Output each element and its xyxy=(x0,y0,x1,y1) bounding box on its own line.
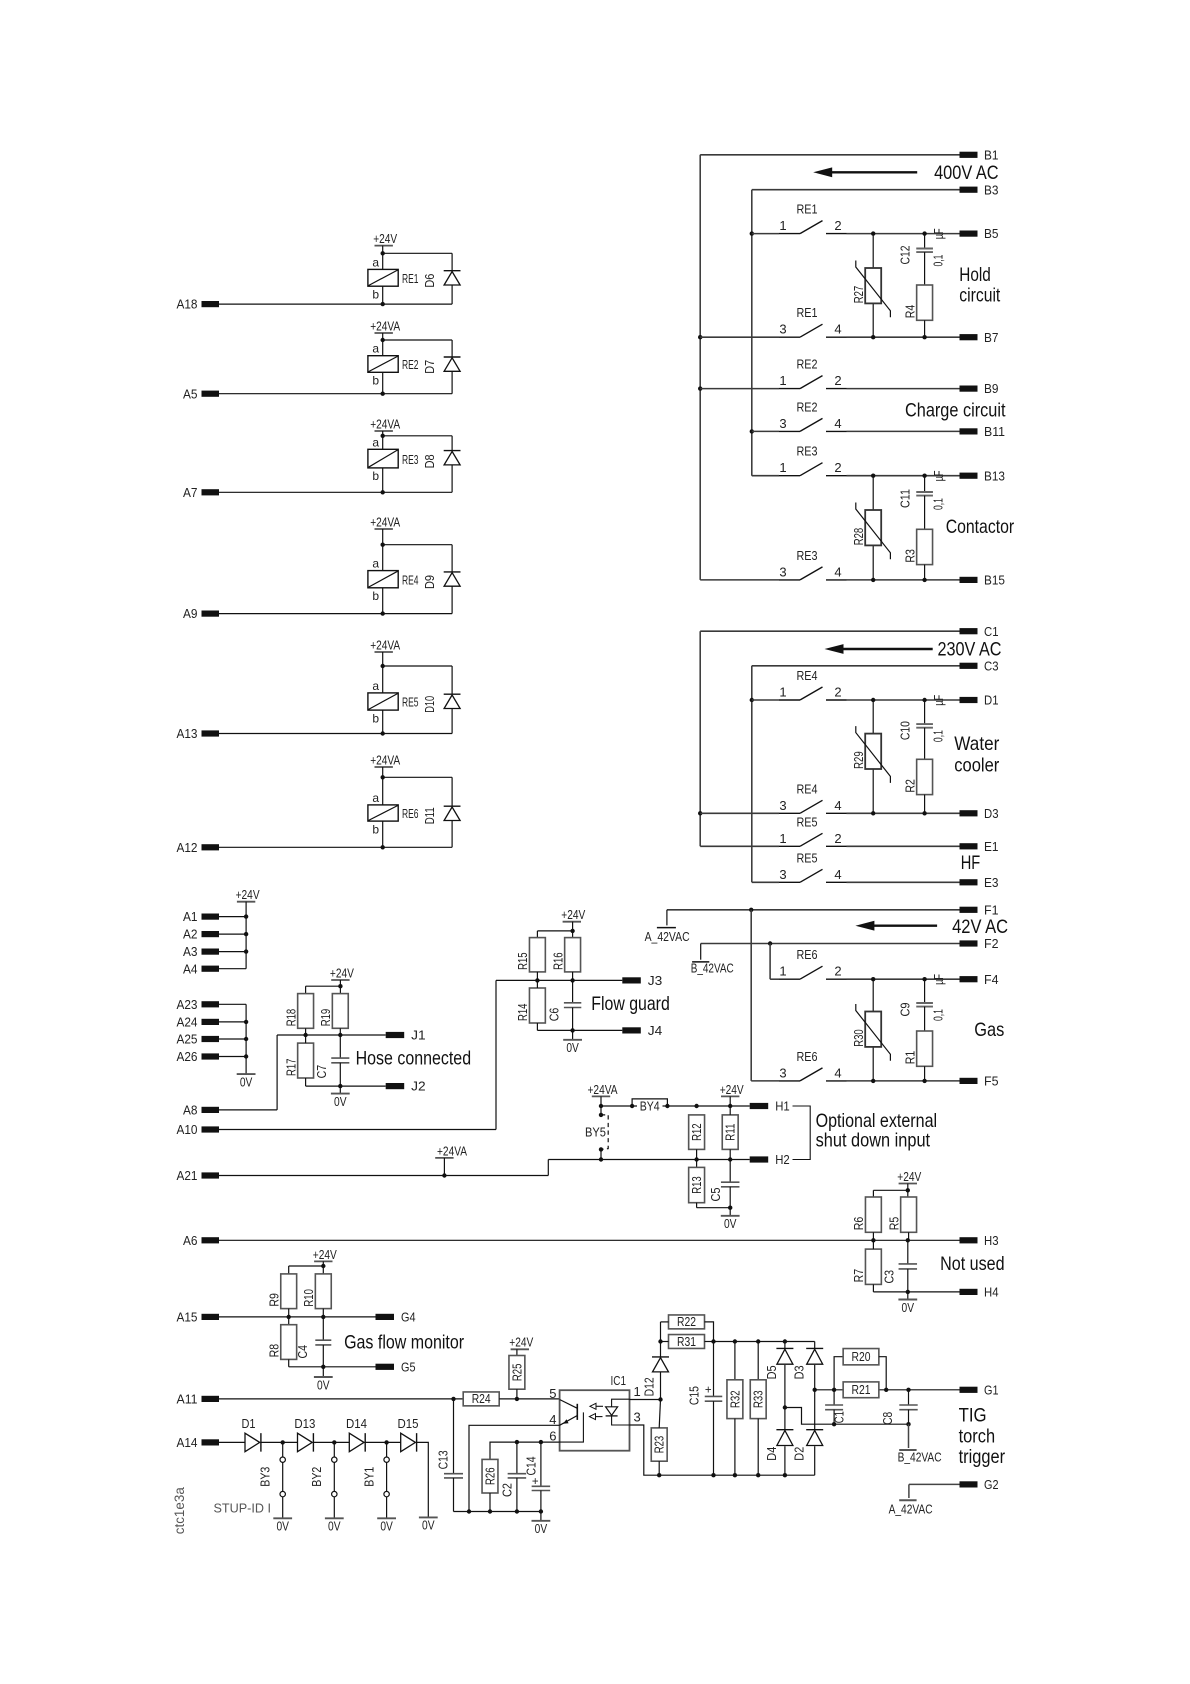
wire A8 to J1 node xyxy=(219,1035,277,1110)
svg-text:B_42VAC: B_42VAC xyxy=(898,1450,942,1464)
svg-text:ctc1e3a: ctc1e3a xyxy=(172,1487,187,1534)
svg-text:B_42VAC: B_42VAC xyxy=(691,962,734,976)
svg-text:D2: D2 xyxy=(793,1447,807,1461)
terminal D3 xyxy=(960,806,999,821)
wire top rail R31 to D3 xyxy=(711,1339,814,1343)
svg-text:C6: C6 xyxy=(548,1008,562,1022)
svg-text:A9: A9 xyxy=(183,606,198,621)
svg-text:A4: A4 xyxy=(183,961,198,976)
label Gas xyxy=(974,1019,1004,1041)
terminal A13 xyxy=(177,726,220,741)
label C12 value 0,1 uF xyxy=(931,228,946,266)
wire A14 to D1 xyxy=(219,1441,245,1443)
wire +24V to R16 and R15 xyxy=(537,922,574,938)
bracket H1-H2 xyxy=(793,1106,811,1160)
wire IC1 pin 4 to bottom bus xyxy=(467,1425,560,1513)
capacitor C2 xyxy=(501,1442,526,1514)
svg-text:0V: 0V xyxy=(566,1040,579,1055)
svg-text:3: 3 xyxy=(779,322,786,337)
terminal A4 xyxy=(183,961,219,976)
wire bus to RE6 1-2 xyxy=(769,944,771,980)
terminal B13 xyxy=(960,468,1006,483)
wire J1 node xyxy=(277,1028,386,1037)
svg-text:400V AC: 400V AC xyxy=(934,162,999,184)
svg-text:0V: 0V xyxy=(724,1216,737,1231)
diode D9 xyxy=(423,572,460,614)
svg-text:RE4: RE4 xyxy=(797,781,818,796)
svg-text:+24V: +24V xyxy=(330,965,354,980)
diode D4 xyxy=(765,1408,793,1478)
node bus A25 xyxy=(244,1037,248,1041)
label Charge circuit xyxy=(905,400,1006,422)
jumper BY2 xyxy=(310,1442,337,1518)
capacitor C5 xyxy=(709,1182,739,1201)
svg-text:G5: G5 xyxy=(401,1359,416,1374)
resistor R24 xyxy=(463,1392,499,1406)
label 42V AC xyxy=(952,916,1008,938)
svg-text:+24V: +24V xyxy=(720,1082,744,1097)
terminal F5 xyxy=(960,1074,999,1089)
+24V supply label for RE1 xyxy=(373,231,397,246)
svg-text:J2: J2 xyxy=(411,1079,426,1094)
svg-text:Not used: Not used xyxy=(940,1253,1005,1275)
terminal J2 xyxy=(386,1079,426,1094)
svg-text:B5: B5 xyxy=(984,226,999,241)
+24V supply label for R15 R16 xyxy=(561,907,585,922)
resistor R20 xyxy=(834,1349,888,1392)
svg-text:TIG: TIG xyxy=(959,1405,987,1427)
terminal E3 xyxy=(960,875,999,890)
svg-text:2: 2 xyxy=(834,460,841,475)
wire A18 to coil xyxy=(219,302,452,306)
capacitor C7 xyxy=(315,1035,350,1078)
resistor R26 xyxy=(482,1459,498,1513)
svg-text:A24: A24 xyxy=(177,1015,198,1030)
svg-text:R20: R20 xyxy=(852,1350,871,1364)
terminal C3 xyxy=(960,658,999,673)
svg-text:A12: A12 xyxy=(177,840,198,855)
label C10 value 0,1 uF xyxy=(931,694,946,742)
+24V supply label for R18 R19 xyxy=(330,965,354,980)
svg-text:RE5: RE5 xyxy=(797,850,818,865)
terminal A3 xyxy=(183,944,219,959)
terminal A10 xyxy=(177,1122,220,1137)
+24V supply label for RE4 xyxy=(370,514,400,529)
svg-text:D8: D8 xyxy=(423,454,437,468)
svg-text:R26: R26 xyxy=(484,1467,498,1485)
diode D15 xyxy=(398,1417,419,1452)
terminal A14 xyxy=(177,1435,220,1450)
relay contact RE3 3-4 xyxy=(700,548,959,582)
svg-text:H2: H2 xyxy=(775,1152,790,1167)
svg-text:BY1: BY1 xyxy=(362,1467,376,1487)
svg-text:6: 6 xyxy=(549,1429,556,1444)
svg-text:+24VA: +24VA xyxy=(370,318,400,333)
svg-text:R2: R2 xyxy=(903,779,917,793)
svg-text:R6: R6 xyxy=(852,1217,866,1231)
svg-text:4: 4 xyxy=(549,1412,556,1427)
resistor R25 xyxy=(509,1356,525,1399)
svg-text:b: b xyxy=(372,711,379,725)
ground 0V below BY2 xyxy=(325,1518,344,1533)
svg-text:A8: A8 xyxy=(183,1103,198,1118)
wire A3 to bus xyxy=(219,951,246,953)
svg-text:C9: C9 xyxy=(898,1002,912,1016)
wire IC1 pin 6 node xyxy=(490,1440,560,1460)
diode D14 xyxy=(346,1417,367,1452)
ground 0V below C3 xyxy=(898,1300,917,1315)
resistor R32 xyxy=(727,1342,743,1478)
wire A1 to bus xyxy=(219,916,246,918)
terminal F2 xyxy=(960,936,999,951)
label Optional external shut down input xyxy=(816,1110,938,1152)
svg-text:µF: µF xyxy=(932,228,946,239)
terminal J1 xyxy=(386,1028,426,1043)
wire R13 C5 to 0V xyxy=(697,1187,733,1216)
svg-text:3: 3 xyxy=(779,1065,786,1080)
svg-text:Water: Water xyxy=(954,733,999,755)
svg-text:BY5: BY5 xyxy=(585,1125,606,1139)
label STUP-ID I xyxy=(214,1501,272,1516)
resistor R15 xyxy=(516,938,545,972)
svg-text:C7: C7 xyxy=(315,1065,329,1079)
relay contact RE2 3-4 xyxy=(752,399,960,431)
terminal B15 xyxy=(960,573,1006,588)
svg-text:J4: J4 xyxy=(648,1023,663,1038)
diode D8 xyxy=(423,451,460,493)
wire H2 node xyxy=(694,1149,732,1182)
svg-text:4: 4 xyxy=(834,322,841,337)
svg-text:G4: G4 xyxy=(401,1310,416,1325)
wire A12 to coil xyxy=(219,845,452,849)
node RE1 top junction xyxy=(381,251,385,255)
svg-text:C3: C3 xyxy=(883,1270,897,1284)
wire RE5 coil vertical xyxy=(382,652,384,734)
svg-text:F2: F2 xyxy=(984,936,999,951)
svg-text:torch: torch xyxy=(959,1426,996,1448)
label Contactor xyxy=(946,516,1015,538)
svg-text:D11: D11 xyxy=(423,807,437,824)
svg-text:+24V: +24V xyxy=(561,907,585,922)
terminal A5 xyxy=(183,386,219,401)
capacitor C12 xyxy=(898,234,933,265)
wire D15 to 0V xyxy=(417,1442,428,1517)
node bus C3 tap xyxy=(750,698,754,702)
+24V supply label for R9 R10 xyxy=(289,1247,337,1274)
svg-text:R24: R24 xyxy=(472,1392,491,1406)
svg-text:+24VA: +24VA xyxy=(588,1082,618,1097)
svg-text:C3: C3 xyxy=(984,658,999,673)
diode D2 xyxy=(793,1390,824,1475)
svg-text:0,1: 0,1 xyxy=(931,498,945,510)
svg-text:RE3: RE3 xyxy=(797,444,818,459)
terminal B7 xyxy=(960,330,999,345)
svg-text:0,1: 0,1 xyxy=(931,730,945,742)
svg-text:Hold: Hold xyxy=(959,264,991,286)
svg-text:D4: D4 xyxy=(765,1447,779,1461)
svg-text:D14: D14 xyxy=(346,1417,367,1431)
wire F2 to B_42VAC xyxy=(701,944,960,960)
wire G2 to A_42VAC xyxy=(909,1484,960,1498)
resistor R1 xyxy=(903,1007,932,1081)
svg-text:C13: C13 xyxy=(436,1450,450,1469)
terminal A6 xyxy=(183,1233,219,1248)
svg-text:RE3: RE3 xyxy=(402,452,419,467)
wire G5 node xyxy=(289,1345,376,1377)
terminal G2 xyxy=(960,1477,999,1492)
diode D1 xyxy=(242,1417,261,1452)
terminal H3 xyxy=(960,1233,999,1248)
svg-text:D15: D15 xyxy=(398,1417,419,1431)
+24VA supply label on A21 wire xyxy=(435,1143,467,1177)
svg-text:BY2: BY2 xyxy=(310,1467,324,1487)
wire A23-A26 bus to 0V xyxy=(245,1004,247,1074)
wire D14 to D15 with BY1 tap xyxy=(366,1440,401,1444)
svg-text:RE1: RE1 xyxy=(797,202,818,217)
svg-text:C11: C11 xyxy=(898,489,912,508)
terminal A24 xyxy=(177,1015,220,1030)
svg-text:C5: C5 xyxy=(709,1187,723,1201)
svg-text:RE5: RE5 xyxy=(402,695,419,710)
resistor R2 xyxy=(903,728,932,814)
relay contact RE4 3-4 xyxy=(700,781,959,815)
svg-text:D9: D9 xyxy=(423,575,437,589)
svg-text:R31: R31 xyxy=(677,1335,696,1349)
svg-text:1: 1 xyxy=(779,460,786,475)
svg-text:BY4: BY4 xyxy=(640,1099,660,1113)
wire C1 feed bus xyxy=(700,631,959,846)
svg-text:R21: R21 xyxy=(852,1383,871,1397)
+24V supply label for A1-A4 bus xyxy=(236,887,260,902)
label Hold circuit xyxy=(959,264,1000,307)
terminal B3 xyxy=(960,182,999,197)
svg-text:R27: R27 xyxy=(852,286,866,304)
svg-text:A_42VAC: A_42VAC xyxy=(645,930,690,944)
svg-text:R14: R14 xyxy=(516,1003,530,1021)
label C9 value 0,1 uF xyxy=(931,974,946,1021)
svg-text:H3: H3 xyxy=(984,1233,999,1248)
terminal A18 xyxy=(177,297,220,312)
svg-text:+24V: +24V xyxy=(236,887,260,902)
svg-text:a: a xyxy=(372,557,379,571)
resistor R7 xyxy=(852,1240,881,1284)
svg-text:D7: D7 xyxy=(423,360,437,374)
svg-text:RE6: RE6 xyxy=(402,806,419,821)
svg-text:R13: R13 xyxy=(690,1176,704,1194)
terminal A26 xyxy=(177,1049,220,1064)
svg-text:A11: A11 xyxy=(177,1392,198,1407)
svg-text:RE6: RE6 xyxy=(797,1049,818,1064)
svg-text:C10: C10 xyxy=(898,721,912,740)
capacitor C9 xyxy=(898,979,933,1016)
+24V supply label for RE2 xyxy=(370,318,400,333)
relay contact RE1 3-4 xyxy=(700,305,959,339)
svg-text:Gas flow monitor: Gas flow monitor xyxy=(344,1332,464,1354)
svg-text:5: 5 xyxy=(549,1386,556,1401)
svg-text:A3: A3 xyxy=(183,944,198,959)
jumper BY5 (dashed) xyxy=(585,1113,608,1162)
svg-text:RE4: RE4 xyxy=(402,572,419,587)
resistor R22 xyxy=(661,1315,714,1342)
resistor R18 xyxy=(284,994,313,1029)
svg-text:A18: A18 xyxy=(177,297,198,312)
+24V supply label for RE5 xyxy=(370,637,400,652)
capacitor C1 xyxy=(825,1390,847,1424)
resistor R23 xyxy=(651,1400,667,1478)
resistor R16 xyxy=(551,938,580,972)
svg-text:1: 1 xyxy=(779,964,786,979)
resistor R8 xyxy=(267,1325,296,1360)
svg-text:C14: C14 xyxy=(525,1456,539,1475)
svg-text:R23: R23 xyxy=(653,1436,667,1454)
wire RE1 coil vertical xyxy=(382,246,384,305)
svg-text:3: 3 xyxy=(779,798,786,813)
terminal A11 xyxy=(177,1392,220,1407)
svg-text:A25: A25 xyxy=(177,1032,198,1047)
svg-text:0V: 0V xyxy=(276,1519,289,1534)
svg-text:Charge circuit: Charge circuit xyxy=(905,400,1006,422)
wire A25 to bus xyxy=(219,1038,246,1040)
wire A24 to bus xyxy=(219,1021,246,1023)
svg-text:B11: B11 xyxy=(984,424,1005,439)
svg-text:F4: F4 xyxy=(984,972,999,987)
+24V supply label for R25 xyxy=(509,1335,533,1356)
svg-text:µF: µF xyxy=(932,974,946,985)
svg-text:A14: A14 xyxy=(177,1435,198,1450)
wire J2 node xyxy=(306,1063,386,1094)
capacitor C4 xyxy=(296,1340,331,1358)
terminal E1 xyxy=(960,839,999,854)
label Water cooler xyxy=(954,733,999,777)
node bus A1 xyxy=(244,914,248,918)
wire A5 to coil xyxy=(219,392,452,396)
relay contact RE5 3-4 xyxy=(752,850,960,882)
svg-text:R5: R5 xyxy=(887,1217,901,1231)
wire RE4 coil vertical xyxy=(382,529,384,614)
svg-text:b: b xyxy=(372,589,379,603)
svg-text:H1: H1 xyxy=(775,1099,790,1114)
terminal B1 xyxy=(960,147,999,162)
svg-text:Contactor: Contactor xyxy=(946,516,1015,538)
wire J4 node xyxy=(537,1008,622,1040)
svg-text:A26: A26 xyxy=(177,1049,198,1064)
svg-text:B7: B7 xyxy=(984,330,999,345)
wire RE1 diode branch xyxy=(383,253,452,270)
svg-text:RE3: RE3 xyxy=(797,548,818,563)
terminal A12 xyxy=(177,840,220,855)
capacitor C11 xyxy=(898,476,933,508)
terminal A7 xyxy=(183,485,219,500)
svg-text:0V: 0V xyxy=(334,1094,347,1109)
wire IC1 pin 3 to bottom rail xyxy=(630,1425,815,1475)
wire D13 to D14 with BY2 tap xyxy=(314,1440,350,1444)
svg-text:µF: µF xyxy=(932,694,946,705)
wire +24V to R19 and R18 xyxy=(306,980,343,994)
wire A13 to coil xyxy=(219,731,452,735)
svg-text:RE2: RE2 xyxy=(402,357,419,372)
svg-text:RE2: RE2 xyxy=(797,399,818,414)
wire F1 to A_42VAC xyxy=(667,910,960,926)
wire D1 to D13 with BY3 tap xyxy=(261,1440,298,1444)
svg-text:C8: C8 xyxy=(881,1412,895,1425)
svg-text:B9: B9 xyxy=(984,381,999,396)
ground 0V below C14 xyxy=(532,1521,551,1536)
svg-text:0V: 0V xyxy=(535,1521,548,1536)
resistor R11 xyxy=(722,1115,738,1150)
terminal B11 xyxy=(960,424,1006,439)
svg-text:IC1: IC1 xyxy=(611,1373,627,1388)
terminal C1 xyxy=(960,624,999,639)
svg-text:F5: F5 xyxy=(984,1074,999,1089)
svg-text:G1: G1 xyxy=(984,1382,999,1397)
svg-text:R19: R19 xyxy=(319,1009,333,1027)
svg-text:D10: D10 xyxy=(423,696,437,713)
svg-text:cooler: cooler xyxy=(954,755,999,777)
resistor R4 xyxy=(903,252,932,337)
relay coil RE6 xyxy=(368,791,419,837)
label 230V AC xyxy=(938,639,1002,661)
svg-text:2: 2 xyxy=(834,685,841,700)
node F2 bus tap xyxy=(768,941,772,945)
svg-text:4: 4 xyxy=(834,1065,841,1080)
diode D3 xyxy=(793,1342,824,1393)
svg-text:R8: R8 xyxy=(267,1344,281,1358)
terminal A21 xyxy=(177,1168,220,1183)
resistor R31 xyxy=(658,1335,713,1349)
label ctc1e3a (sheet id) xyxy=(172,1487,187,1534)
terminal A15 xyxy=(177,1310,220,1325)
label Not used xyxy=(940,1253,1005,1275)
net B_42VAC (left) xyxy=(691,962,734,976)
svg-text:4: 4 xyxy=(834,867,841,882)
node bus B1 taps xyxy=(698,335,702,391)
capacitor C8 xyxy=(881,1390,918,1448)
svg-text:RE4: RE4 xyxy=(797,668,818,683)
ground 0V below D15 wire xyxy=(419,1517,438,1532)
+24V supply label for RE6 xyxy=(370,752,400,767)
wire A11 to R24 xyxy=(219,1397,463,1401)
svg-text:HF: HF xyxy=(961,852,981,874)
diode D12 xyxy=(642,1322,669,1400)
svg-text:R29: R29 xyxy=(852,751,866,769)
wire bus to RE6 3-4 xyxy=(750,910,752,1081)
resistor R21 xyxy=(843,1382,879,1398)
ground 0V below C6 xyxy=(563,1040,582,1055)
svg-text:2: 2 xyxy=(834,964,841,979)
ground 0V below C5 xyxy=(721,1216,740,1231)
svg-text:b: b xyxy=(372,374,379,388)
wire RE3 coil vertical xyxy=(382,431,384,492)
svg-text:A6: A6 xyxy=(183,1233,198,1248)
ground 0V below BY3 xyxy=(273,1518,292,1533)
relay contact RE6 1-2 xyxy=(770,947,959,981)
resistor R33 xyxy=(750,1342,766,1478)
svg-text:1: 1 xyxy=(634,1384,641,1399)
svg-text:B3: B3 xyxy=(984,182,999,197)
resistor R6 xyxy=(852,1197,881,1232)
svg-text:RE6: RE6 xyxy=(797,947,818,962)
svg-text:Gas: Gas xyxy=(974,1019,1004,1041)
terminal J3 xyxy=(622,973,662,988)
svg-text:b: b xyxy=(372,469,379,483)
wire RE3 diode branch xyxy=(383,436,452,451)
terminal F1 xyxy=(960,902,999,917)
svg-text:3: 3 xyxy=(779,867,786,882)
svg-text:0V: 0V xyxy=(902,1300,915,1315)
relay contact RE5 1-2 xyxy=(700,814,959,846)
capacitor C3 xyxy=(883,1240,918,1283)
svg-text:0,1: 0,1 xyxy=(931,254,945,266)
